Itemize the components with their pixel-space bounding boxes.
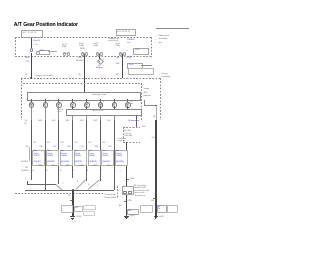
box HOT right bbox=[116, 29, 136, 36]
junction dot at W1 entry bbox=[30, 77, 32, 79]
wire color labels under boxes bbox=[25, 167, 28, 169]
top-right page rule bbox=[156, 27, 189, 30]
wire stub bulb4 to drive circuit bbox=[72, 106, 73, 109]
fuse F3 bbox=[96, 52, 100, 56]
wire segment 2 to C-connector bbox=[100, 120, 101, 178]
wire A below small dashed box bbox=[126, 142, 127, 216]
range switch dashed box bbox=[20, 183, 23, 193]
4B label at right bottom of gauge box bbox=[153, 116, 155, 118]
wire B details bbox=[134, 185, 149, 198]
bulb 1 bbox=[29, 102, 35, 108]
pin labels under gauge box bbox=[25, 121, 28, 123]
wire W4 bbox=[122, 56, 123, 78]
diagonals from right wires bbox=[76, 180, 86, 190]
bar2 drive circuit bbox=[66, 109, 142, 117]
connector label box 5 (D3 circuit) bbox=[88, 150, 101, 166]
connector label box 3 (N circuit) bbox=[60, 150, 73, 166]
wire stub bulb5 to drive circuit bbox=[86, 106, 87, 109]
connector label box 7 (1 circuit) bbox=[115, 150, 128, 166]
wires below connector line bbox=[31, 178, 32, 180]
fuse area small text col x63 bbox=[62, 44, 67, 48]
connector label box 2 (R circuit) bbox=[46, 150, 59, 166]
right small connector boxes bbox=[127, 57, 132, 59]
A/T gear position indicator label bbox=[143, 88, 150, 98]
wire stub bulb8 to drive circuit bbox=[127, 106, 128, 109]
connector dashed line bbox=[14, 177, 121, 180]
pin labels above connector line bbox=[32, 171, 34, 173]
connector label box 4 (D4 circuit) bbox=[74, 150, 87, 166]
switch common wire bbox=[72, 190, 73, 216]
wire segment D3 to C-connector bbox=[86, 120, 87, 178]
tiny gray pairs above bbox=[33, 143, 36, 145]
wire A details bbox=[119, 171, 122, 173]
bus lines in switch area bbox=[27, 183, 56, 186]
bulb 8 bbox=[125, 102, 131, 108]
boxes near common wire bbox=[61, 205, 72, 213]
fuse/relay dashed box bbox=[15, 36, 152, 39]
wire bulb3 down bbox=[58, 106, 59, 120]
tiny labels in switch area bbox=[62, 184, 63, 186]
wire drive-circuit out D3 bbox=[86, 115, 87, 120]
connector label box 6 (2 circuit) bbox=[101, 150, 114, 166]
wire segment D4 to C-connector bbox=[72, 120, 73, 178]
blue label under gauge box right bbox=[129, 120, 140, 122]
ground G401 bbox=[154, 215, 159, 218]
ground G501 bbox=[124, 215, 129, 218]
wire drive-circuit out 2 bbox=[100, 115, 101, 120]
wire bulb2 down bbox=[45, 106, 46, 120]
bulb 2 bbox=[43, 102, 49, 108]
wire drive-circuit out 1 bbox=[114, 115, 115, 120]
wire drive-circuit to illumination box bbox=[136, 115, 137, 128]
blue label right in fusebox bbox=[127, 39, 134, 41]
box HOT left bbox=[21, 30, 43, 38]
text left of bar2 bbox=[57, 109, 63, 113]
connector label box 1 (P circuit) bbox=[32, 150, 45, 166]
small box right in fusebox bbox=[127, 50, 128, 52]
gauge assembly outer dashed box bbox=[21, 77, 161, 80]
wire W1 bbox=[31, 56, 32, 78]
label under-dash fuse/relay box (right, outside) bbox=[159, 35, 169, 45]
title bbox=[14, 22, 78, 28]
wire W3 + splice diamond bbox=[99, 56, 100, 59]
fuse F1 bbox=[31, 38, 32, 48]
gray text inside fusebox top right bbox=[108, 38, 119, 42]
wire drive-circuit out D4 bbox=[72, 115, 73, 120]
bulb 7 bbox=[112, 102, 118, 108]
fuse F4 bbox=[119, 52, 123, 56]
bulb 6 bbox=[98, 102, 104, 108]
wire stub bulb7 to drive circuit bbox=[114, 106, 115, 109]
wire segment N bulb to C-connector bbox=[58, 120, 59, 178]
wire B from gauge box bbox=[155, 106, 158, 120]
junction dot bbox=[72, 189, 74, 191]
gauge assembly label right bbox=[162, 73, 170, 80]
wire segment P bulb to C-connector bbox=[31, 120, 32, 178]
bulb 5 bbox=[84, 102, 90, 108]
connector blue ticks above label boxes bbox=[26, 146, 29, 148]
ground G101 bbox=[70, 215, 75, 218]
fuse F2 bbox=[81, 52, 85, 56]
wire stub bulb6 to drive circuit bbox=[100, 106, 101, 109]
bar1 dimming circuit bbox=[27, 92, 142, 100]
bulb 4 bbox=[70, 102, 76, 108]
small dashed box (console illumination) bbox=[123, 126, 140, 129]
inner dashed lines bbox=[23, 82, 142, 85]
wire W2 bbox=[84, 56, 85, 92]
bulb 3 bbox=[56, 102, 62, 108]
bulb filament X marks bbox=[30, 103, 32, 105]
wire segment 1 to C-connector bbox=[114, 120, 115, 178]
wire segment R bulb to C-connector bbox=[45, 120, 46, 178]
wire bulb1 down bbox=[31, 106, 32, 120]
